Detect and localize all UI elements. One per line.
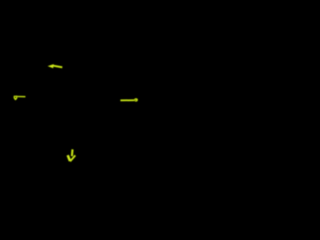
- current arrow I1 (left-pointing, top wire): [48, 64, 63, 68]
- terminal B (right, lead wire with ring): [120, 98, 137, 101]
- terminal A (left, ring with lead wire): [14, 96, 26, 101]
- current arrow I2 (down-pointing, bottom wire): [68, 149, 76, 161]
